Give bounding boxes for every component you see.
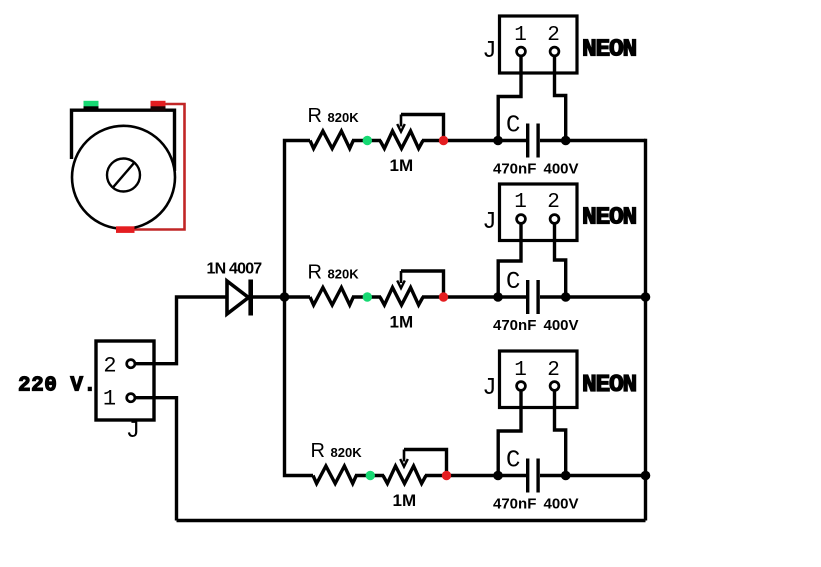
svg-text:220 V.: 220 V.: [18, 374, 97, 397]
svg-text:J: J: [482, 38, 496, 65]
svg-text:1: 1: [514, 191, 527, 214]
svg-text:2: 2: [547, 359, 560, 382]
svg-text:1: 1: [514, 24, 527, 47]
svg-text:2: 2: [547, 24, 560, 47]
svg-text:1: 1: [514, 359, 527, 382]
svg-text:2: 2: [103, 353, 116, 378]
svg-text:NEON: NEON: [582, 372, 637, 399]
svg-text:1N 4007: 1N 4007: [207, 261, 263, 278]
svg-text:J: J: [126, 418, 140, 445]
svg-text:J: J: [482, 375, 496, 402]
svg-text:NEON: NEON: [582, 205, 637, 232]
svg-text:1: 1: [103, 387, 116, 412]
svg-text:2: 2: [547, 191, 560, 214]
svg-text:NEON: NEON: [582, 37, 637, 64]
svg-text:J: J: [482, 209, 496, 236]
